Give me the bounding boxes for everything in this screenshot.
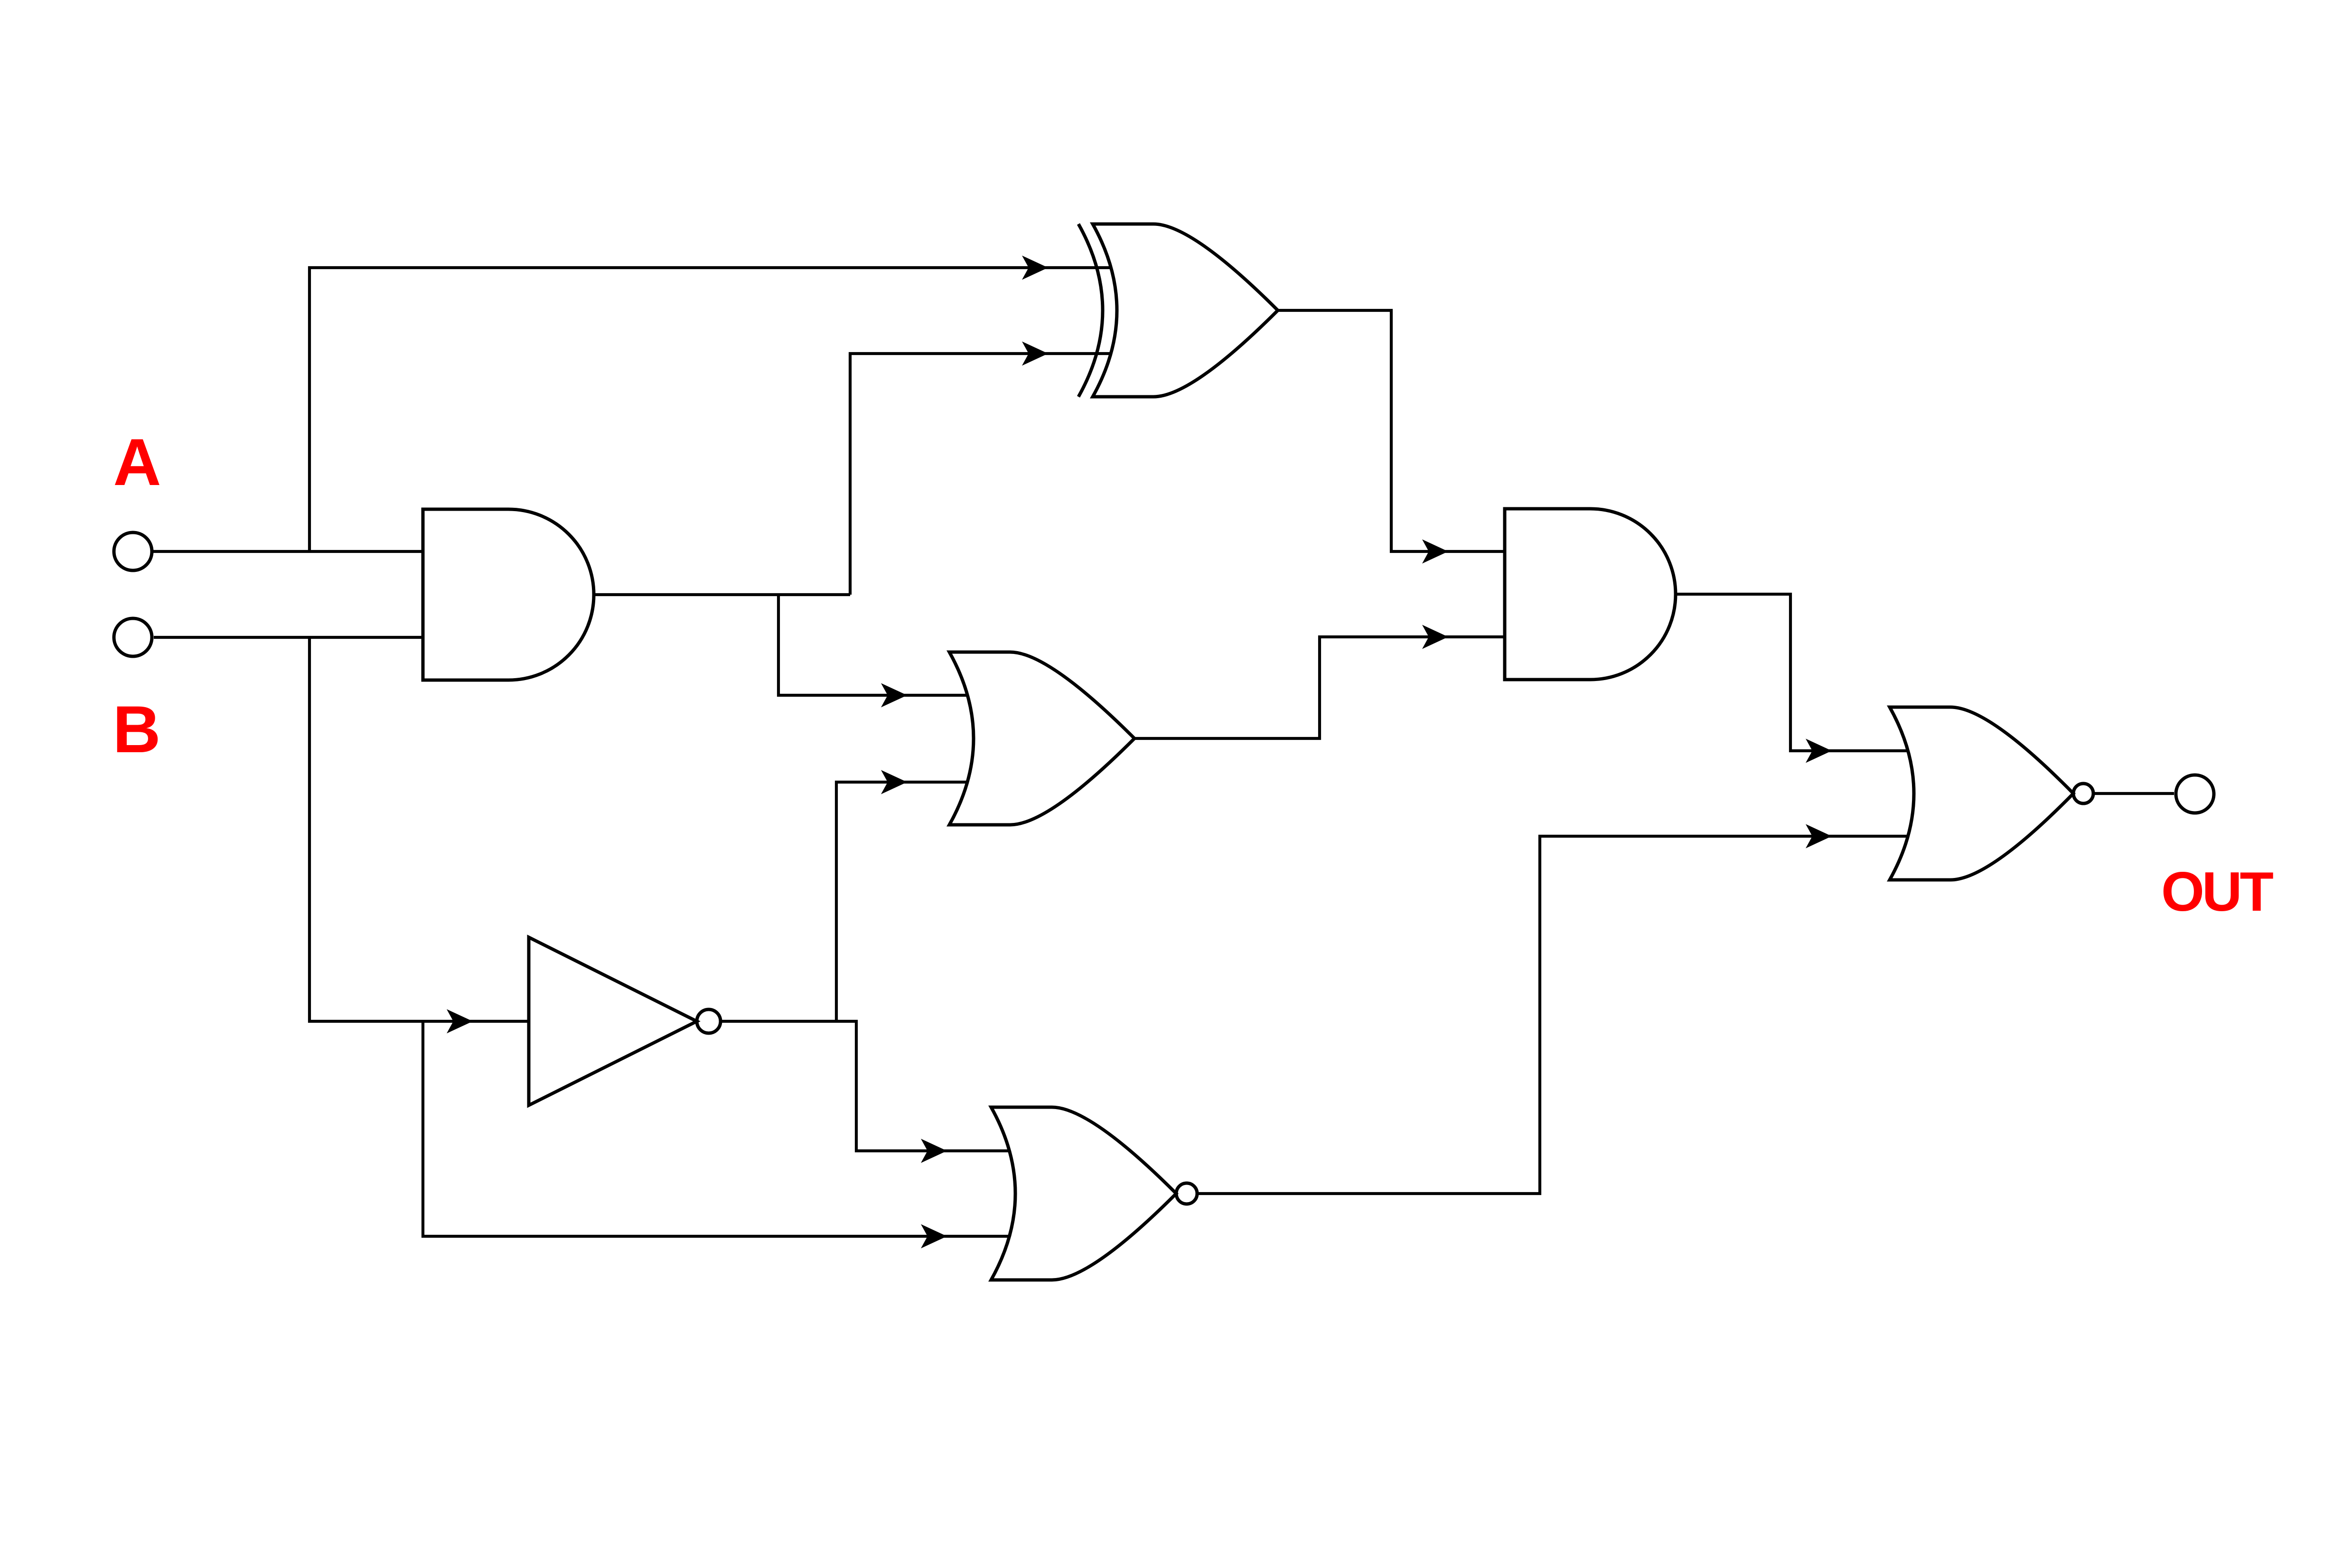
wire AND2 output to NOR2 input A bbox=[1676, 594, 1909, 751]
wire AND1 output up to XOR input 2 bbox=[850, 354, 1111, 595]
wire OR1 output to AND2 input B bbox=[1134, 637, 1504, 738]
arrowhead on OR1 input B bbox=[881, 770, 907, 794]
wire A branch up to XOR input 1 bbox=[309, 268, 1111, 551]
wire B branch to NOR1 input B bbox=[423, 1021, 1009, 1236]
arrowhead on AND2 input B bbox=[1422, 625, 1448, 649]
wire NOR2 output to OUT terminal bbox=[2093, 792, 2174, 795]
svg-text:A: A bbox=[113, 425, 161, 499]
wire AND1 output down to OR1 input A bbox=[778, 595, 967, 695]
arrowhead on XOR input 2 bbox=[1022, 342, 1048, 366]
not gate U4 bubble bbox=[697, 1009, 721, 1033]
and gate U6 bbox=[1505, 509, 1676, 680]
wire NOT output to NOR1 input A bbox=[721, 1021, 1009, 1151]
xor gate U1 outer input arc bbox=[1078, 224, 1103, 397]
nor gate U7 body bbox=[1890, 707, 2073, 880]
wire A to AND1 input bbox=[153, 550, 423, 553]
arrowhead on AND2 input A bbox=[1422, 540, 1448, 564]
and gate U2 bbox=[423, 509, 594, 680]
output terminal OUT bbox=[2176, 775, 2214, 813]
or gate U3 bbox=[949, 652, 1134, 825]
arrowhead on NOR2 input B bbox=[1806, 824, 1832, 849]
wire XOR output to AND2 input A bbox=[1278, 310, 1504, 551]
arrowhead on NOR1 input A bbox=[921, 1139, 947, 1163]
wire B branch down to NOT input bbox=[309, 637, 529, 1021]
arrowhead on NOR2 input A bbox=[1806, 739, 1832, 763]
arrowhead on OR1 input A bbox=[881, 683, 907, 708]
wire NOR1 output to NOR2 input B bbox=[1197, 836, 1908, 1194]
nor gate U5 body bbox=[991, 1107, 1176, 1280]
nor gate U7 bubble bbox=[2073, 784, 2093, 803]
arrowhead on NOT input bbox=[447, 1009, 473, 1034]
wire NOT output branch up to OR1 input B bbox=[836, 782, 967, 1021]
input terminal A bbox=[114, 532, 152, 570]
nor gate U5 bubble bbox=[1176, 1183, 1197, 1204]
svg-text:B: B bbox=[112, 692, 160, 766]
svg-text:OUT: OUT bbox=[2161, 860, 2274, 923]
not gate U4 triangle bbox=[529, 937, 697, 1105]
arrowhead on XOR input 1 bbox=[1022, 256, 1048, 280]
arrowhead on NOR1 input B bbox=[921, 1224, 947, 1249]
wire B to AND1 input bbox=[154, 636, 423, 639]
input terminal B bbox=[114, 618, 152, 656]
wire AND1 output bbox=[594, 593, 850, 596]
xor gate U1 body bbox=[1093, 224, 1278, 397]
